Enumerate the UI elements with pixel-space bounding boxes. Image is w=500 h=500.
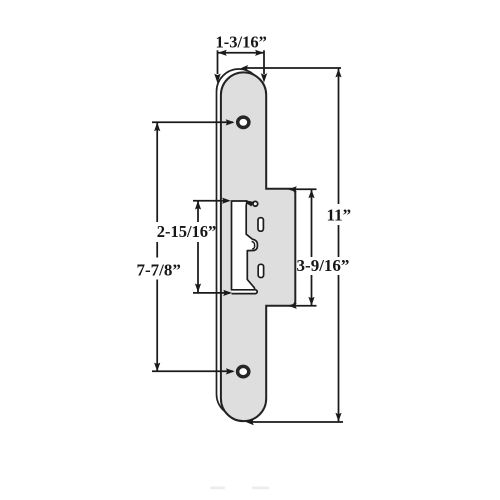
lower slot	[258, 264, 263, 277]
dim 11 label	[327, 205, 352, 224]
svg-text:11”: 11”	[327, 205, 352, 224]
dim 7-7/8 bottom leader with right arrow	[152, 368, 235, 374]
dim 11 top extension line with left arrow	[241, 65, 341, 71]
dim 1-3/16 left extension with down arrow	[214, 50, 220, 83]
latch opening cutout	[232, 201, 258, 290]
dim 2-15/16 top leader with right arrow	[193, 198, 231, 204]
dim 1-3/16 horizontal line with outward arrows	[218, 50, 264, 56]
dim 2-15/16 vertical line	[195, 201, 201, 293]
back plate outline	[217, 69, 262, 417]
svg-text:3-9/16”: 3-9/16”	[297, 256, 350, 275]
dim 3-9/16 top leader with left arrow	[288, 186, 317, 192]
dim 1-3/16 right extension with down arrow	[261, 50, 267, 83]
upper slot	[258, 218, 263, 232]
bottom screw hole	[238, 366, 249, 376]
dim 7-7/8 label	[137, 261, 181, 280]
top screw hole	[238, 117, 249, 127]
dim 7-7/8 vertical line	[154, 122, 160, 371]
dim 1-3/16 label	[216, 33, 267, 52]
dim 11 vertical line	[335, 69, 341, 422]
svg-text:1-3/16”: 1-3/16”	[216, 33, 267, 52]
dim 3-9/16 vertical line	[308, 189, 314, 305]
dim 7-7/8 top leader with right arrow	[152, 119, 235, 125]
latch lip bottom fold	[232, 290, 258, 294]
dim 3-9/16 label	[297, 256, 350, 275]
dim 11 bottom extension line with left arrow	[246, 419, 343, 425]
dim 3-9/16 bottom leader with left arrow	[288, 303, 317, 309]
strike plate front with lip protrusion	[221, 72, 295, 421]
dim 2-15/16 bottom leader with right arrow	[193, 290, 232, 296]
svg-text:7-7/8”: 7-7/8”	[137, 261, 181, 280]
latch tab hollow inner line	[252, 242, 255, 249]
faint cropped text remnant bottom	[210, 487, 269, 490]
dim 2-15/16 label	[157, 222, 217, 241]
lip curl ring	[245, 200, 258, 206]
svg-text:2-15/16”: 2-15/16”	[157, 222, 217, 241]
